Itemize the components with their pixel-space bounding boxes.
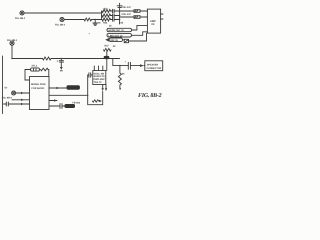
wire U1 right row4 with capacitor C45 — [49, 105, 60, 107]
wire rail bottom — [119, 85, 121, 89]
figure border left edge — [2, 56, 4, 114]
resistor R37 — [104, 48, 112, 51]
svg-text:5V: 5V — [5, 87, 8, 90]
svg-text:FIG. 8B-4: FIG. 8B-4 — [15, 17, 26, 20]
svg-text:C: C — [57, 60, 59, 63]
resistor R41 — [41, 68, 49, 71]
svg-text:DUAL 3W: DUAL 3W — [94, 72, 105, 75]
terminal T1 (FIG. 8B-4 connector) — [20, 11, 24, 15]
svg-text:XTL1: XTL1 — [32, 65, 38, 68]
terminal T3 — [10, 41, 14, 45]
IC U1 serial ROM — [30, 77, 50, 110]
svg-text:+: + — [89, 33, 91, 36]
resistor R34 (box style) — [134, 10, 140, 13]
svg-text:R33: R33 — [103, 22, 108, 25]
arrow into speaker box — [140, 64, 144, 67]
capacitor C44 — [4, 103, 7, 105]
capacitor C33 (row3 series) — [111, 19, 113, 21]
wire main bend down to speaker feed — [113, 59, 129, 66]
wire row to amp box (y17) — [120, 16, 134, 18]
connector header P2 (black bar) — [104, 56, 110, 59]
wire R36 to bank — [92, 19, 102, 21]
node rail junction — [119, 65, 120, 66]
svg-text:+: + — [125, 61, 127, 64]
svg-text:FIG. 8B-3: FIG. 8B-3 — [2, 97, 13, 100]
wire bar down to amp — [106, 59, 108, 70]
wire main middle rail — [12, 58, 43, 60]
wire U1 right short (row3) — [49, 100, 57, 102]
svg-text:FIG. 8B-4: FIG. 8B-4 — [55, 24, 66, 27]
svg-text:PWR AMP: PWR AMP — [94, 78, 105, 81]
svg-text:FB 600: FB 600 — [73, 102, 81, 105]
wire bank input stub — [101, 11, 103, 20]
wire vertical rail (top) — [119, 3, 121, 24]
IC U2 audio power amp — [93, 71, 106, 85]
terminal T2 — [60, 17, 64, 21]
svg-text:C39 .047: C39 .047 — [122, 13, 132, 16]
connector small square — [124, 39, 128, 42]
svg-text:22: 22 — [113, 45, 116, 48]
microphone MK1 (pill with diode) — [105, 38, 109, 42]
jack J1 (pill) — [107, 28, 132, 31]
wire J2 to U3 — [132, 32, 148, 36]
node C41 tap — [61, 58, 63, 60]
crystal X1 (dark) — [67, 85, 80, 90]
svg-text:C40: C40 — [119, 22, 124, 25]
node rail top junctions — [119, 10, 120, 11]
svg-text:FOR AUDIO: FOR AUDIO — [32, 87, 45, 90]
resistor R33 — [102, 18, 111, 21]
node T3 corner — [11, 58, 12, 59]
svg-text:32: 32 — [109, 24, 112, 27]
node rail bottom — [119, 88, 121, 90]
wire T4 to U1 — [16, 92, 30, 94]
wire rail down — [119, 66, 121, 73]
svg-text:SPEAKER: SPEAKER — [147, 63, 158, 66]
svg-text:MIC IN: MIC IN — [111, 39, 118, 42]
wire U1 right long (row2) — [49, 94, 88, 96]
wire row3 to U1 — [8, 103, 29, 105]
pin stubs top of U2 — [93, 66, 95, 71]
resistor R35 (box style) — [134, 16, 140, 19]
svg-text:CONNECTOR: CONNECTOR — [147, 67, 162, 70]
wire R37 down to header — [106, 51, 108, 56]
speaker connector box — [145, 61, 163, 71]
svg-text:FIG. 8B-1: FIG. 8B-1 — [7, 39, 18, 42]
svg-text:R37: R37 — [105, 45, 110, 48]
svg-text:FIG. 8B-2: FIG. 8B-2 — [138, 93, 162, 99]
wire row to amp box (y11) — [120, 10, 134, 12]
resistor R40 with arrow — [93, 100, 99, 102]
ground (top) — [94, 20, 96, 24]
op-amp box U3 (top right) — [147, 9, 160, 33]
wire row2 to U1 — [12, 99, 30, 101]
capacitor C41 to ground — [60, 59, 62, 61]
oscillator Y1 above U1 — [31, 68, 40, 71]
pin stubs right of U3 — [161, 13, 163, 15]
svg-text:36: 36 — [98, 22, 101, 25]
wire loop over U1 — [25, 70, 31, 81]
ground arrow under C41 — [60, 67, 63, 70]
svg-text:36: 36 — [122, 73, 125, 76]
wire square to node — [123, 39, 125, 41]
resistor R32 — [102, 14, 111, 17]
wire J1 to U3 — [132, 25, 148, 30]
capacitor C38 on rail — [117, 5, 122, 7]
wire T3 down — [11, 45, 13, 58]
svg-text:HDPH OUT J1: HDPH OUT J1 — [109, 29, 125, 32]
svg-text:SERIAL ROM: SERIAL ROM — [31, 83, 45, 86]
wire T2 to resistor R36 — [64, 19, 84, 21]
svg-text:I/F: I/F — [152, 23, 155, 26]
resistor R36 — [84, 18, 92, 21]
wire from T1 to resistor bank — [24, 12, 101, 14]
node loop join — [87, 95, 88, 96]
resistor R39 (vertical on rail) — [118, 73, 121, 85]
resistor R38 — [43, 57, 52, 60]
svg-text:AUDIO PA: AUDIO PA — [94, 75, 105, 78]
pin arrows bottom of U2 — [102, 85, 104, 89]
wire ground loop (left down right up) — [88, 75, 103, 105]
ferrite L1 (dark) — [65, 104, 76, 108]
svg-text:LINE OUT J2: LINE OUT J2 — [109, 35, 124, 38]
svg-text:C38 .047: C38 .047 — [122, 6, 132, 9]
jack J2 (pill) — [107, 34, 132, 37]
terminal T4 — [12, 91, 16, 95]
capacitor C32 (row2 series) — [111, 15, 113, 17]
node ground tap — [95, 19, 96, 20]
capacitor C31 (row1 series) — [111, 10, 113, 12]
wire into U2 left with capacitor C43 — [88, 74, 89, 76]
wire R38 to rail — [51, 58, 120, 60]
capacitor C42 (series, polarized) — [127, 62, 129, 69]
svg-text:TDA 72: TDA 72 — [94, 81, 103, 84]
wire U1 right pin row1 to crystal — [49, 87, 67, 89]
